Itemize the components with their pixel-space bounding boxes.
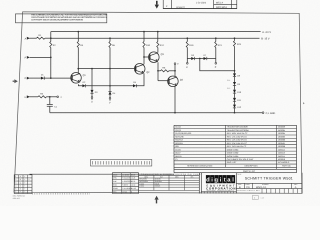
wire Q3 base	[144, 56, 150, 58]
notice box	[16, 14, 108, 23]
terminal V	[109, 95, 111, 105]
capacitor C1	[47, 97, 58, 113]
svg-text:R.GAGNE: R.GAGNE	[122, 177, 131, 180]
svg-text:5: 5	[15, 188, 16, 191]
terminal H	[25, 95, 38, 99]
transistor Q2	[134, 64, 150, 75]
power rail +10V	[51, 31, 272, 34]
resistor R8	[158, 66, 169, 72]
svg-text:4: 4	[15, 184, 16, 187]
svg-text:x: x	[29, 185, 30, 187]
svg-text:IN3606: IN3606	[155, 185, 161, 188]
svg-text:1.05: 1.05	[261, 196, 264, 199]
svg-text:12-28: 12-28	[131, 177, 135, 180]
wire chain segment	[234, 85, 236, 90]
resistor R2	[50, 42, 57, 48]
transistor Q4	[168, 76, 184, 87]
node R6 top	[109, 37, 111, 41]
wire R10 to Q2 collector	[143, 48, 145, 65]
wire F input	[30, 57, 52, 59]
wire clamp to diode chain	[200, 59, 236, 72]
svg-text:PART NO.: PART NO.	[282, 164, 291, 167]
svg-text:CS: CS	[246, 186, 250, 189]
diode D6	[191, 54, 195, 60]
svg-text:1500364: 1500364	[278, 129, 285, 132]
top revision table (cut off at sheet edge)	[163, 0, 237, 9]
wire D1 to Q1 base	[44, 77, 72, 79]
terminal K	[186, 59, 188, 70]
svg-text:12-28-64: 12-28-64	[122, 173, 129, 176]
svg-text:CAP. 6.8MFD 35V 10% S.TANT: CAP. 6.8MFD 35V 10% S.TANT	[227, 158, 255, 161]
svg-text:1300364: 1300364	[278, 132, 285, 135]
svg-text:+: +	[24, 192, 25, 194]
svg-text:12-30: 12-30	[131, 184, 135, 187]
svg-text:DIODE D-664: DIODE D-664	[227, 148, 239, 151]
svg-text:R23,R24: R23,R24	[175, 142, 182, 145]
svg-text:1100114: 1100114	[278, 148, 285, 151]
wire R12 to Q3 collector	[157, 48, 159, 53]
svg-text:A-PL-W501-0: A-PL-W501-0	[278, 161, 289, 164]
wire Q1 collector bus to Q2 base	[78, 68, 135, 70]
svg-text:REFERENCE DESIGNATION: REFERENCE DESIGNATION	[187, 164, 213, 167]
svg-text:RES. 750 1/4W 5% CC: RES. 750 1/4W 5% CC	[227, 145, 247, 148]
svg-text:C,L GND: C,L GND	[266, 112, 276, 115]
wire rail1 corner down x=50.8	[50, 32, 52, 42]
terminal U	[91, 93, 93, 103]
svg-text:1100113: 1100113	[278, 152, 285, 155]
node R21 top	[215, 37, 217, 41]
svg-text:1300365: 1300365	[278, 135, 285, 138]
svg-text:5000 W51: 5000 W51	[216, 6, 228, 9]
node R10 top	[143, 31, 145, 42]
resistor R21	[215, 42, 223, 48]
svg-text:CORPORATION: CORPORATION	[206, 187, 235, 191]
resistor R19	[186, 42, 194, 48]
resistor R3	[38, 92, 46, 98]
ground terminal C,L	[262, 112, 275, 115]
svg-text:x: x	[29, 179, 30, 181]
diode D10	[233, 90, 242, 94]
transistor Q1	[71, 73, 87, 84]
wire R3 to terminal J	[46, 96, 56, 98]
centering mark right	[303, 102, 304, 104]
svg-text:DRB 102: DRB 102	[13, 197, 20, 200]
svg-text:6: 6	[15, 191, 16, 194]
svg-text:TRANSISTOR DEC3639A: TRANSISTOR DEC3639A	[227, 129, 250, 132]
terminal P	[215, 59, 217, 70]
bias labels R24 R25	[227, 79, 230, 90]
wire R21 down	[215, 48, 217, 59]
node R23 top	[234, 37, 236, 40]
node R19 top	[186, 37, 188, 41]
svg-text:DIODE D-664: DIODE D-664	[227, 155, 239, 158]
terminal F	[25, 56, 30, 60]
svg-text:t: t	[224, 178, 226, 184]
svg-text:1500339: 1500339	[278, 126, 285, 129]
centering mark top	[155, 1, 159, 9]
svg-text:R2,R4,R6: R2,R4,R6	[175, 135, 183, 138]
svg-text:RES. 1.5K 1/4W 5% CC: RES. 1.5K 1/4W 5% CC	[227, 135, 248, 138]
svg-text:DWG. LIST: DWG. LIST	[227, 161, 238, 164]
svg-text:R.BEST: R.BEST	[122, 184, 128, 187]
wire R8 to node	[169, 70, 176, 72]
svg-text:SEC.: SEC.	[113, 191, 117, 194]
svg-text:Q1,Q4: Q1,Q4	[175, 126, 181, 129]
svg-text:1300366: 1300366	[278, 139, 285, 142]
svg-text:L-D-1024: L-D-1024	[196, 1, 207, 4]
diode D4	[108, 91, 116, 95]
wire Q3 emitter down	[157, 62, 159, 80]
diode D3	[90, 90, 98, 94]
svg-text:R25: R25	[227, 87, 230, 90]
wire chain segment	[234, 77, 236, 82]
svg-text:PARTS LIST: PARTS LIST	[243, 170, 256, 173]
svg-text:+: +	[24, 182, 25, 184]
svg-text:J: J	[60, 96, 61, 99]
wire R19 down	[186, 48, 188, 59]
centering mark left	[13, 79, 18, 83]
wire chain segment	[234, 101, 236, 104]
wire clamp bus	[187, 58, 216, 60]
svg-text:W501-0-1: W501-0-1	[256, 186, 267, 189]
svg-text:12-29: 12-29	[131, 180, 135, 183]
diode D2	[82, 81, 86, 87]
svg-text:1100114: 1100114	[278, 155, 285, 158]
svg-text:TRANSISTOR DEC3639: TRANSISTOR DEC3639	[227, 126, 248, 129]
node rail2/R2	[50, 37, 52, 39]
centering mark bottom	[155, 196, 159, 204]
svg-text:Q2,Q3: Q2,Q3	[175, 129, 181, 132]
diode D8	[233, 73, 241, 77]
svg-text:R10,R12: R10,R12	[175, 139, 182, 142]
svg-text:DIODE D-662: DIODE D-662	[227, 152, 239, 155]
svg-text:+: +	[24, 179, 25, 181]
wire Q1 emitter	[78, 84, 82, 86]
wire chain to ground	[234, 108, 236, 113]
svg-text:1300401: 1300401	[278, 142, 285, 145]
wire R2 down to base node	[50, 48, 52, 79]
wire emitter bus	[86, 85, 133, 87]
svg-text:SCHMITT TRIGGER W501: SCHMITT TRIGGER W501	[245, 176, 293, 180]
diode D1	[41, 74, 45, 80]
ground bus	[50, 112, 262, 114]
svg-text:1300398: 1300398	[278, 145, 285, 148]
svg-text:RES. 100K 1/4W 5% CC: RES. 100K 1/4W 5% CC	[227, 132, 248, 135]
wire Q4 emitter to ground bus	[174, 86, 176, 113]
svg-text:R1,R3,R8,R19,R21: R1,R3,R8,R19,R21	[175, 132, 191, 135]
svg-text:A +10 V: A +10 V	[262, 31, 271, 34]
power rail -15V	[51, 37, 270, 40]
svg-text:COPYRIGHT 1965 BY DIGITAL EQUI: COPYRIGHT 1965 BY DIGITAL EQUIPMENT CORP…	[31, 19, 83, 22]
wire R23 down	[234, 46, 236, 73]
wire R1 to rail node	[45, 37, 51, 39]
svg-text:D-664: D-664	[139, 185, 144, 188]
svg-text:D6,D7: D6,D7	[175, 152, 180, 155]
wire chain segment	[234, 93, 236, 98]
diode D7	[204, 54, 208, 60]
wire Q4 base	[158, 80, 169, 82]
wire R4 to Q1 collector	[77, 48, 79, 74]
svg-text:1-4-65: 1-4-65	[131, 187, 136, 190]
resistor R4	[77, 42, 84, 48]
svg-text:d: d	[206, 177, 210, 184]
svg-text:RES. 1.2K 1/4W 5% CC: RES. 1.2K 1/4W 5% CC	[227, 139, 248, 142]
terminal D	[25, 77, 41, 81]
resistor R10	[143, 42, 151, 48]
svg-text:PROD: PROD	[113, 187, 119, 190]
resistor R6	[109, 42, 116, 48]
svg-text:R25: R25	[175, 145, 178, 148]
svg-text:C1: C1	[175, 158, 177, 161]
svg-text:+: +	[24, 189, 25, 191]
svg-text:1000016: 1000016	[278, 158, 285, 161]
node R12 top	[157, 31, 159, 42]
wire D5 to Q2 emitter	[136, 73, 144, 85]
diode D9	[233, 82, 241, 86]
diode D5	[133, 81, 137, 87]
diode D12	[233, 105, 242, 109]
resistor R12	[157, 42, 165, 48]
svg-text:F: F	[20, 191, 21, 194]
svg-text:B -15 V: B -15 V	[261, 37, 270, 40]
svg-text:R24: R24	[227, 79, 230, 82]
terminal A (input)	[25, 37, 37, 41]
svg-text:D8-D11: D8-D11	[175, 155, 181, 158]
svg-text:3: 3	[15, 181, 16, 184]
terminal J	[57, 96, 62, 99]
terminal T	[174, 63, 179, 71]
resistor R23	[233, 41, 241, 47]
node R4 top	[77, 31, 79, 42]
transistor Q3	[149, 52, 165, 63]
svg-text:D1-D5: D1-D5	[175, 148, 180, 151]
svg-text:g: g	[215, 178, 219, 184]
resistor R1	[37, 34, 45, 39]
wire R6 down through nodes	[109, 48, 111, 92]
svg-text:+: +	[24, 185, 25, 187]
svg-text:2: 2	[15, 178, 16, 181]
wire D3 branch	[91, 69, 93, 90]
svg-text:RES. 3.0K 1/4W 5% CC: RES. 3.0K 1/4W 5% CC	[227, 142, 248, 145]
svg-text:1: 1	[15, 175, 16, 178]
wire Q4 collector	[174, 71, 176, 77]
svg-text:SCHMITT: SCHMITT	[176, 6, 186, 9]
diode D11	[233, 98, 242, 102]
svg-text:+: +	[24, 176, 25, 178]
svg-text:W51 A: W51 A	[216, 2, 223, 5]
svg-text:DESCRIPTION: DESCRIPTION	[245, 164, 259, 167]
svg-text:W 501: W 501	[122, 191, 127, 194]
svg-text:TRANSISTOR & DIODE CONVERSION: TRANSISTOR & DIODE CONVERSION CHART	[141, 173, 203, 176]
